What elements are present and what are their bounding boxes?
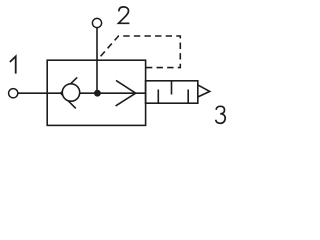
silencer body — [146, 81, 198, 103]
port 1 circle — [9, 89, 18, 98]
pilot dashed line (alternate position) — [98, 36, 181, 68]
port 2 stem wire — [96, 28, 98, 94]
flow arrow lower leg — [116, 93, 136, 106]
label 3 — [216, 106, 226, 123]
silencer tick 1 — [157, 90, 159, 104]
label 2 — [119, 7, 130, 23]
label 1 — [10, 56, 16, 73]
wire junction to box right edge — [97, 92, 145, 94]
check valve seat upper leg — [61, 77, 78, 93]
silencer outlet triangle — [198, 85, 210, 97]
wire port1 to check valve seat — [18, 92, 61, 94]
silencer tick 3 — [187, 90, 189, 104]
silencer tick 2 — [171, 81, 173, 95]
check valve ball — [62, 84, 79, 101]
check valve seat lower leg — [61, 93, 76, 108]
wire ball to junction — [79, 92, 97, 94]
port 2 circle — [92, 18, 101, 27]
flow arrow upper leg — [116, 80, 136, 93]
valve body box — [47, 60, 145, 125]
junction node — [94, 90, 101, 97]
